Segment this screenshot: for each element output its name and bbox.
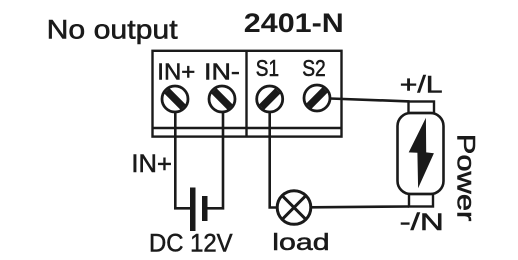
svg-text:IN+: IN+ <box>157 59 195 85</box>
power lightning bolt <box>409 118 434 188</box>
svg-text:2401-N: 2401-N <box>244 8 344 38</box>
battery B1 plate short <box>202 196 208 221</box>
svg-text:S2: S2 <box>302 55 326 81</box>
screw terminal S2 <box>304 85 330 111</box>
svg-text:IN+: IN+ <box>131 150 172 178</box>
wire from S2 to power +/L <box>330 99 410 102</box>
terminal block bottom strip line <box>153 127 342 129</box>
power supply top tab <box>409 102 435 114</box>
svg-text:IN-: IN- <box>204 59 240 85</box>
battery B1 plate long <box>190 188 196 232</box>
power supply body <box>398 113 444 194</box>
wire from S1 down to load <box>270 112 276 208</box>
svg-text:load: load <box>272 229 329 255</box>
svg-text:-/N: -/N <box>400 209 444 236</box>
wire from load to power -/N <box>312 205 409 208</box>
terminal block divider <box>245 51 247 137</box>
svg-text:S1: S1 <box>256 55 279 81</box>
power supply bottom tab <box>409 194 433 207</box>
svg-text:+/L: +/L <box>400 72 443 99</box>
wire from IN+ down to battery <box>175 112 190 208</box>
screw terminal IN- <box>209 86 235 112</box>
svg-text:No output: No output <box>47 15 179 45</box>
screw terminal IN+ <box>162 86 188 112</box>
terminal block outline <box>153 51 342 137</box>
screw terminal S1 <box>257 86 283 112</box>
load lamp <box>277 191 311 225</box>
svg-text:Power: Power <box>451 134 479 222</box>
svg-text:DC 12V: DC 12V <box>149 230 233 258</box>
wire from IN- down to battery <box>208 112 224 208</box>
